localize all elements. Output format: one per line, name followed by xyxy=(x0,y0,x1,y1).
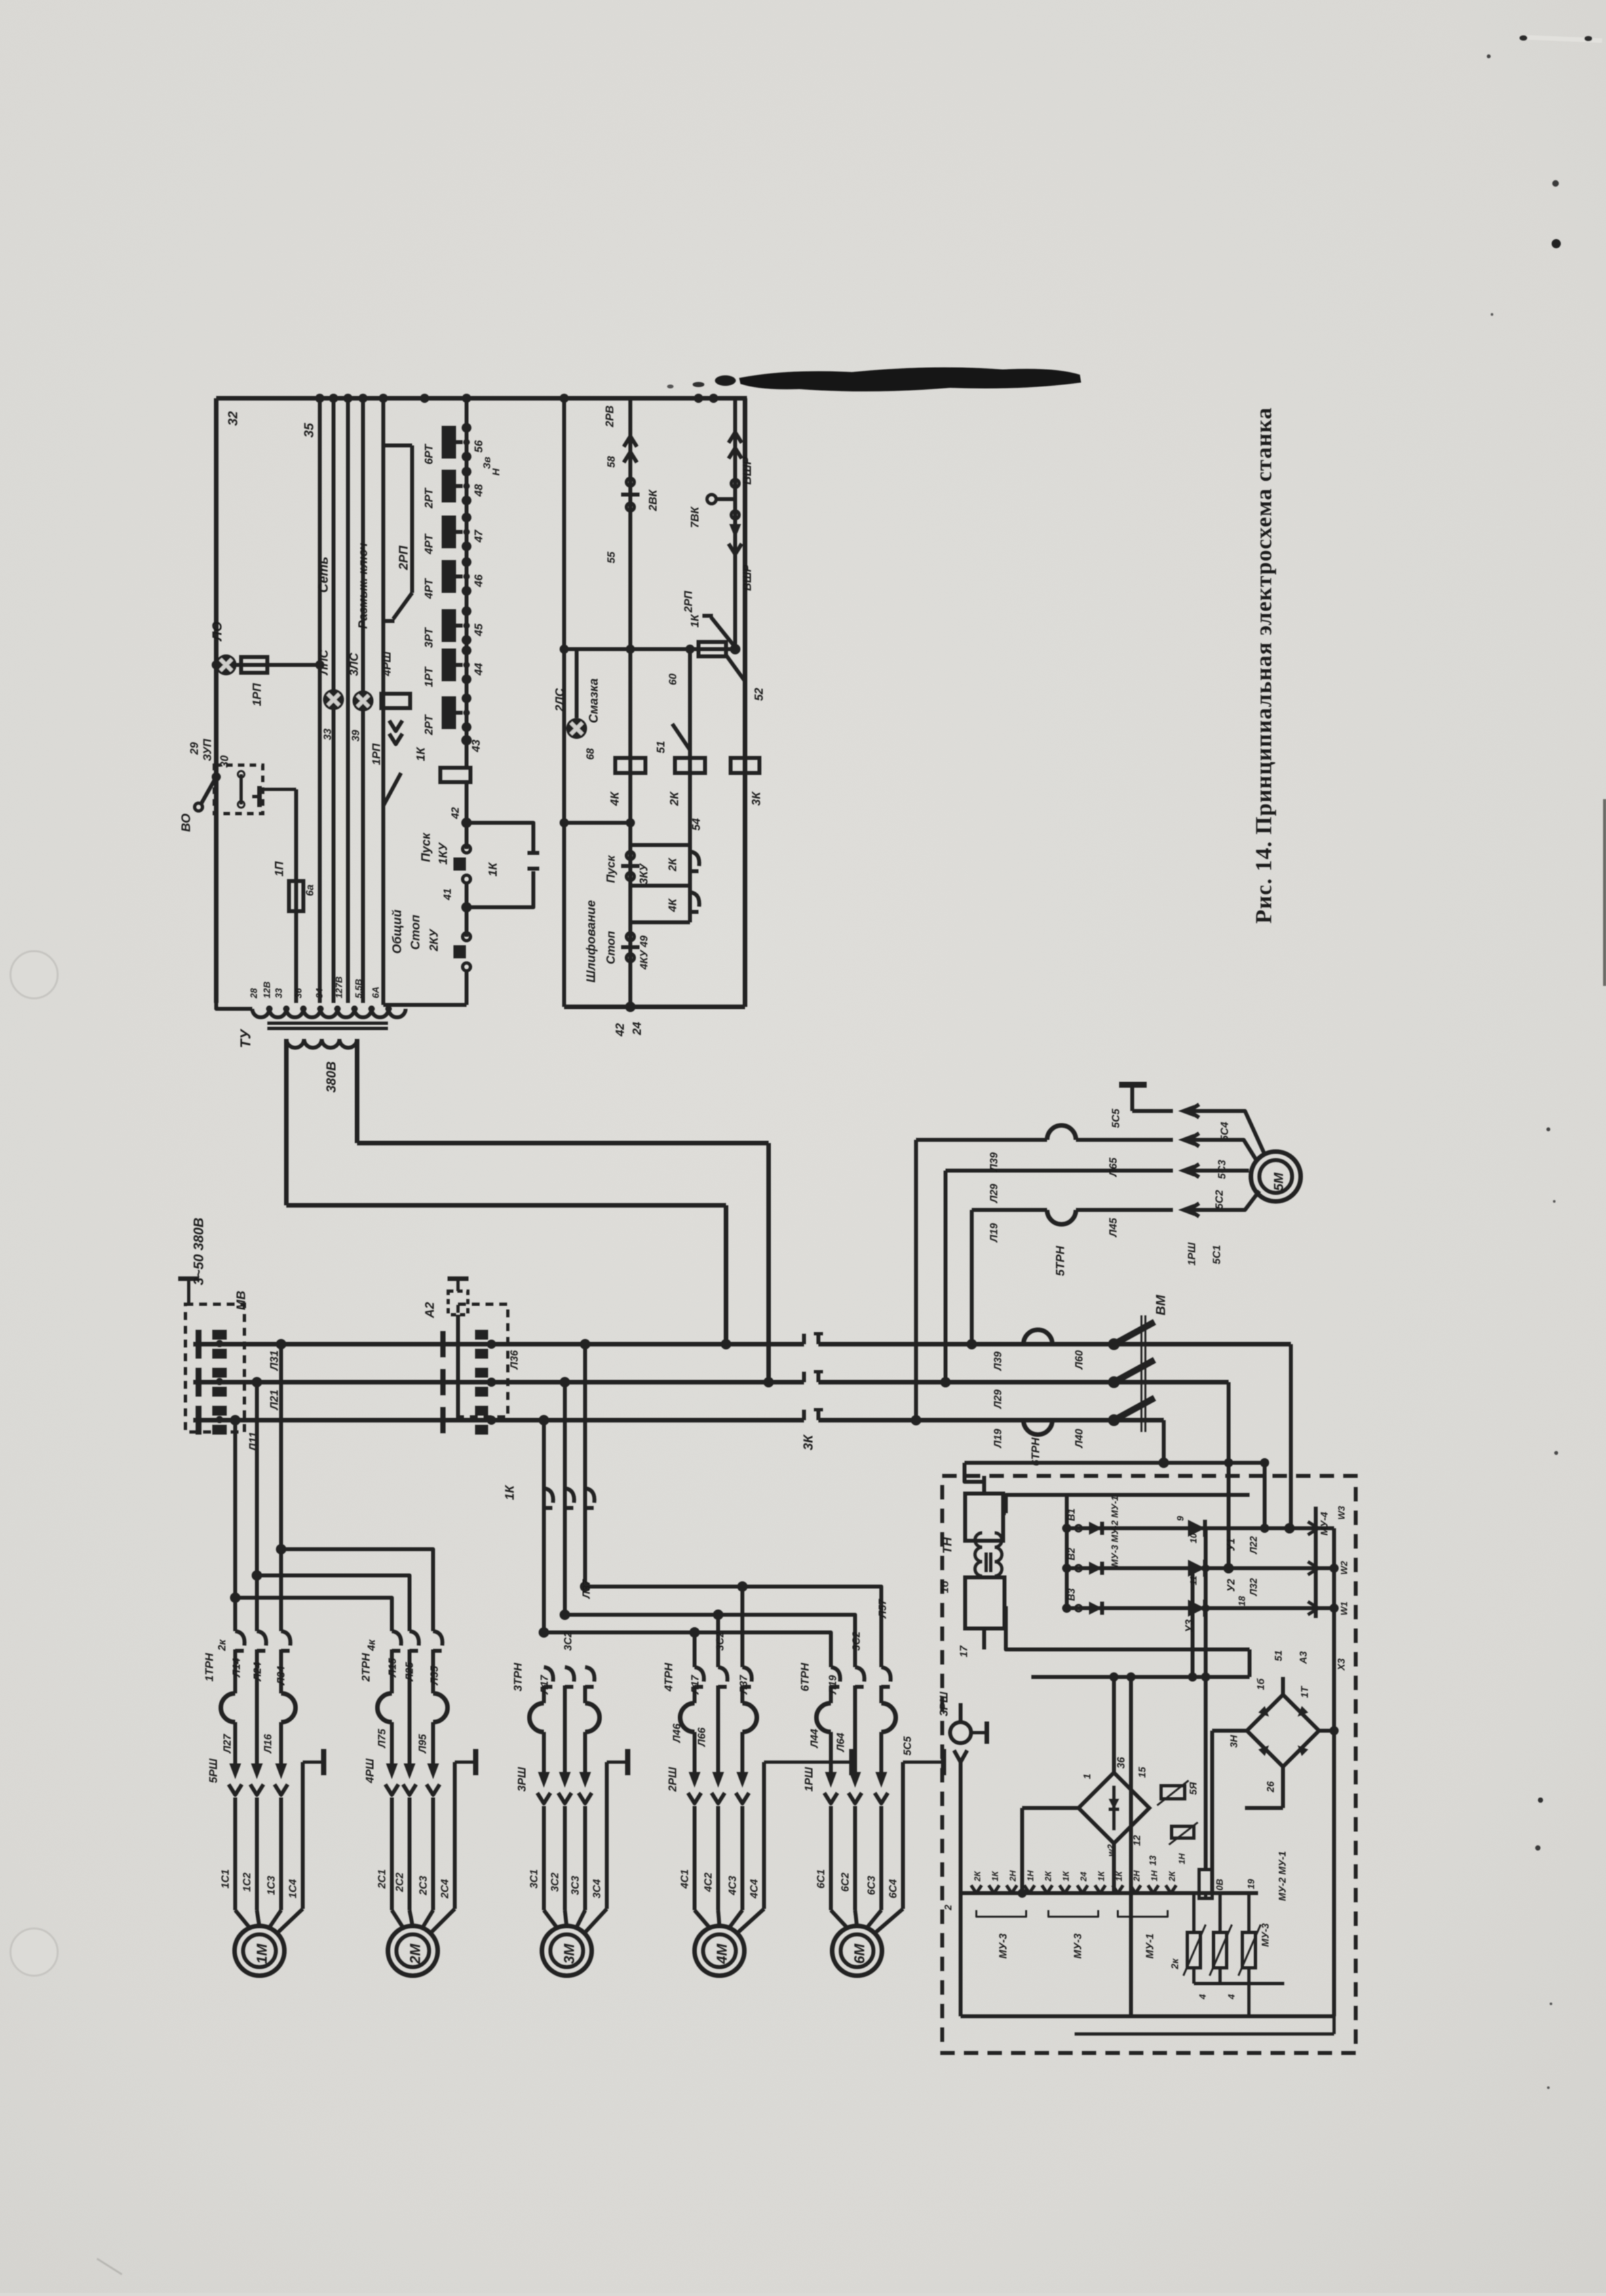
overload bus bump top xyxy=(1023,1330,1052,1344)
svg-text:0В: 0В xyxy=(1214,1879,1225,1891)
svg-text:W3: W3 xyxy=(1336,1506,1347,1520)
wire resistor row top xyxy=(1179,1891,1258,1895)
svg-text:4РТ: 4РТ xyxy=(423,578,435,599)
connector РШ arrows 6М xyxy=(825,1772,837,1788)
wire V2 xyxy=(688,649,692,922)
svg-text:3ЛС: 3ЛС xyxy=(347,652,360,676)
svg-text:4С3: 4С3 xyxy=(727,1876,738,1896)
junction bus2 3М xyxy=(560,1377,570,1387)
svg-text:Л29: Л29 xyxy=(989,1184,1000,1203)
connector ВШР up arrows xyxy=(729,448,742,459)
svg-text:ТУ: ТУ xyxy=(237,1028,254,1048)
svg-text:7ВК: 7ВК xyxy=(689,506,701,528)
wire bridge2 left xyxy=(1212,1729,1247,1733)
svg-text:У1: У1 xyxy=(1226,1538,1237,1551)
svg-text:2К: 2К xyxy=(1167,1871,1177,1882)
motor 4М xyxy=(695,1926,744,1976)
svg-text:3С1: 3С1 xyxy=(529,1870,540,1889)
svg-text:Л17: Л17 xyxy=(690,1674,701,1695)
svg-text:Л60: Л60 xyxy=(1074,1350,1085,1370)
contactor А2 box xyxy=(448,1291,468,1315)
overload 5ТРН a xyxy=(1047,1125,1076,1140)
svg-text:Зв: Зв xyxy=(482,457,493,469)
svg-text:6А: 6А xyxy=(370,987,381,998)
svg-text:ВО: ВО xyxy=(180,814,193,832)
overload bus bump bottom xyxy=(1023,1420,1052,1435)
svg-text:2КУ: 2КУ xyxy=(427,928,440,952)
wire 5М fan xyxy=(1194,1111,1265,1154)
wire 2М below bumps xyxy=(390,1722,394,1763)
svg-text:3К: 3К xyxy=(750,791,763,806)
svg-text:2М: 2М xyxy=(407,1944,423,1965)
svg-text:36: 36 xyxy=(293,988,303,998)
svg-text:1К: 1К xyxy=(414,746,427,761)
svg-text:2к: 2к xyxy=(1170,1958,1181,1970)
svg-text:Л35: Л35 xyxy=(429,1665,440,1685)
contactor А2 dashed xyxy=(458,1304,508,1417)
contact К 6М b xyxy=(855,1667,864,1682)
svg-text:1М: 1М xyxy=(254,1944,270,1964)
scan speck tr3 xyxy=(1487,54,1491,58)
svg-text:Л34: Л34 xyxy=(276,1666,287,1685)
wire route to 2М c xyxy=(235,1598,392,1631)
junction bus3 1М xyxy=(230,1415,240,1425)
connector ЗРШ xyxy=(950,1722,971,1743)
svg-text:4ТРН: 4ТРН xyxy=(662,1663,675,1692)
wire 380В run xyxy=(286,1203,726,1208)
svg-text:ВМ: ВМ xyxy=(1154,1294,1168,1315)
svg-text:1К: 1К xyxy=(1114,1871,1124,1881)
ЗУП inner contact xyxy=(240,774,243,804)
wire В column xyxy=(1065,1495,1069,1608)
contact К 4М a xyxy=(695,1667,704,1682)
svg-text:3ТРН: 3ТРН xyxy=(512,1663,524,1691)
transformer ТН secondary box xyxy=(965,1577,1004,1628)
motor 5М xyxy=(1251,1152,1301,1201)
button 4КУ xyxy=(626,933,634,941)
wire control left rail xyxy=(214,398,219,1003)
wire bottom return xyxy=(961,2014,1334,2018)
contact К 2М a xyxy=(392,1631,401,1646)
svg-text:4К: 4К xyxy=(608,791,621,806)
wire 5М row top xyxy=(916,1138,1047,1142)
svg-text:2РТ: 2РТ xyxy=(423,714,435,736)
ТН coil right xyxy=(995,1533,1002,1576)
wire ТН sec out xyxy=(982,1628,986,1649)
svg-text:2РВ: 2РВ xyxy=(603,405,616,428)
wire row У3 xyxy=(1067,1606,1334,1610)
svg-text:6а: 6а xyxy=(305,884,316,896)
button 1КУ xyxy=(463,845,470,853)
svg-text:1К: 1К xyxy=(503,1484,517,1500)
svg-text:28: 28 xyxy=(248,988,259,999)
wire ЗУП to fuse rail xyxy=(263,788,296,791)
svg-text:33: 33 xyxy=(322,728,334,740)
scan speck r1 xyxy=(1546,1127,1550,1131)
svg-text:W2: W2 xyxy=(1339,1561,1349,1575)
connector РШ arrows 1М xyxy=(229,1763,241,1779)
coil 3К xyxy=(731,758,759,773)
contact 1РТ bars xyxy=(442,649,456,681)
svg-text:2ЛС: 2ЛС xyxy=(553,688,566,712)
junction 3М route b xyxy=(560,1609,570,1620)
svg-text:1Н: 1Н xyxy=(1149,1870,1159,1881)
svg-text:МУ-4: МУ-4 xyxy=(1319,1511,1330,1535)
svg-text:Шлифование: Шлифование xyxy=(584,900,598,983)
resistor R1 xyxy=(1193,1893,1196,1932)
coil 1К xyxy=(440,768,470,782)
junction 3М route c xyxy=(539,1627,549,1638)
connector shl top xyxy=(564,821,630,825)
wire Y2560 run xyxy=(1031,1675,1250,1679)
svg-text:МУ-3 МУ-2 МУ-1: МУ-3 МУ-2 МУ-1 xyxy=(1109,1496,1120,1567)
svg-text:Л64: Л64 xyxy=(835,1733,847,1752)
motor 3М xyxy=(542,1926,592,1976)
junction right bus rows xyxy=(1329,1564,1339,1573)
wire 3М below bumps xyxy=(542,1732,546,1772)
svg-text:Л32: Л32 xyxy=(1248,1577,1259,1596)
svg-text:ВШР: ВШР xyxy=(740,456,754,485)
wire ТУ sec right xyxy=(355,1039,360,1143)
relay ЗУП dashed box xyxy=(214,765,263,814)
wire 4М col right xyxy=(740,1587,744,1667)
junction У1 bus1 xyxy=(1284,1523,1295,1534)
junction on top rail xyxy=(315,394,324,403)
overload 4ТРН heater a xyxy=(680,1703,695,1732)
svg-text:4С4: 4С4 xyxy=(749,1879,760,1899)
svg-text:55: 55 xyxy=(606,551,617,563)
svg-text:Л19: Л19 xyxy=(993,1429,1004,1448)
contact 1К loop xyxy=(467,823,533,852)
wire 3М col right xyxy=(583,1344,587,1587)
svg-text:Л37: Л37 xyxy=(581,1579,592,1599)
connector 2РВ arrows xyxy=(624,452,637,462)
wire 1М to motor xyxy=(233,1797,237,1910)
wire bus phase 3 xyxy=(193,1418,804,1423)
svg-text:МУ-3: МУ-3 xyxy=(998,1934,1009,1959)
ТУ secondary winding xyxy=(286,1039,357,1048)
svg-text:1РП: 1РП xyxy=(370,743,383,765)
transformer ТН primary box xyxy=(965,1494,1003,1541)
svg-text:1Н: 1Н xyxy=(1177,1853,1187,1864)
svg-text:17: 17 xyxy=(959,1645,970,1657)
svg-text:В1: В1 xyxy=(1066,1509,1077,1521)
wire route to 2М a xyxy=(281,1549,433,1631)
wire ground 1М xyxy=(301,1762,305,1909)
wire route to 6М b xyxy=(565,1615,855,1667)
scan speck tr1 xyxy=(1520,35,1527,41)
switch ВМ blades xyxy=(1108,1338,1120,1350)
svg-text:5ТРН: 5ТРН xyxy=(1054,1245,1067,1276)
junction on top rail xyxy=(329,394,338,403)
wire А2 stem xyxy=(456,1315,460,1420)
svg-text:2ТРН: 2ТРН xyxy=(360,1653,372,1682)
svg-text:2К: 2К xyxy=(1043,1871,1053,1882)
svg-text:2К: 2К xyxy=(972,1871,982,1882)
svg-text:Л24: Л24 xyxy=(252,1662,263,1682)
scan speck r7 xyxy=(1547,2086,1550,2089)
wire ЗРШ up xyxy=(959,1703,963,1722)
wire ТН drop xyxy=(965,1463,984,1482)
svg-text:МУ-2 МУ-1: МУ-2 МУ-1 xyxy=(1277,1851,1288,1901)
svg-text:1РШ: 1РШ xyxy=(803,1767,815,1792)
svg-text:9: 9 xyxy=(1175,1516,1185,1521)
coil 4К xyxy=(615,758,645,773)
contact К 2М c xyxy=(433,1631,442,1646)
wire control right rail xyxy=(743,398,748,1007)
svg-text:13: 13 xyxy=(1147,1855,1158,1866)
svg-text:Л39: Л39 xyxy=(989,1152,1000,1172)
svg-text:Стоп: Стоп xyxy=(409,914,423,950)
svg-text:24: 24 xyxy=(1079,1872,1088,1882)
svg-text:Х3: Х3 xyxy=(1336,1658,1347,1671)
svg-text:51: 51 xyxy=(655,741,667,753)
wire bridge1 left xyxy=(1022,1806,1079,1810)
svg-text:1П: 1П xyxy=(273,861,286,876)
contact 52 blade xyxy=(726,655,745,681)
svg-text:32: 32 xyxy=(226,411,240,426)
svg-text:3РТ: 3РТ xyxy=(423,627,435,648)
wire loop rung b xyxy=(630,884,690,888)
wire 4М cols mid xyxy=(693,1685,697,1703)
svg-text:5М: 5М xyxy=(1272,1172,1286,1191)
coil АРШ xyxy=(381,694,410,708)
brace g3 xyxy=(1118,1910,1168,1917)
wire 5М row bot xyxy=(972,1208,1047,1212)
wire loop rung c xyxy=(630,920,690,924)
scan speck r4 xyxy=(1538,1797,1543,1803)
overload 3ТРН heater a xyxy=(529,1703,544,1732)
svg-text:Л39: Л39 xyxy=(993,1351,1004,1371)
svg-text:МУ-3: МУ-3 xyxy=(1073,1934,1084,1959)
svg-text:Л15: Л15 xyxy=(387,1657,398,1678)
svg-text:44: 44 xyxy=(472,663,485,676)
svg-text:4КУ 49: 4КУ 49 xyxy=(639,935,650,970)
diode group В3 xyxy=(1075,1605,1082,1611)
junction 4М b xyxy=(713,1609,723,1620)
svg-text:Н: Н xyxy=(491,468,502,476)
punch hole lower xyxy=(10,1929,58,1976)
svg-text:42: 42 xyxy=(450,807,461,819)
scan edge sliver xyxy=(1603,799,1606,986)
junction on top rail xyxy=(420,394,429,403)
ТУ core xyxy=(267,1022,388,1025)
wire 6М to motor xyxy=(829,1806,833,1910)
junction on top rail xyxy=(343,394,353,403)
connector РШ arrows 2М xyxy=(386,1763,398,1779)
svg-text:45: 45 xyxy=(472,624,485,637)
brace g2 xyxy=(1048,1910,1098,1917)
wire 1К to buttons xyxy=(465,782,468,849)
svg-text:4РТ: 4РТ xyxy=(423,533,435,555)
svg-text:1К: 1К xyxy=(689,614,701,628)
svg-text:33: 33 xyxy=(273,988,284,998)
svg-text:1К: 1К xyxy=(486,861,499,876)
contact К 6М a xyxy=(831,1667,840,1682)
svg-text:1С3: 1С3 xyxy=(266,1876,277,1895)
svg-text:1РШ: 1РШ xyxy=(1187,1242,1198,1266)
motor 2М xyxy=(388,1926,438,1976)
wire rail Смазка xyxy=(562,398,566,1007)
svg-text:ЛО: ЛО xyxy=(210,621,225,642)
ЗРШ chevron xyxy=(954,1750,967,1762)
motor 6М xyxy=(832,1926,882,1976)
wire route to 6М c xyxy=(544,1632,831,1667)
svg-text:Л46: Л46 xyxy=(672,1723,683,1743)
contact 4РТ bars xyxy=(442,560,456,593)
wire 1М below bumps xyxy=(233,1722,237,1763)
svg-text:380В: 380В xyxy=(324,1061,339,1093)
wire rail to coil xyxy=(216,1003,252,1009)
svg-text:1: 1 xyxy=(1082,1774,1093,1779)
wire bottom return 2 xyxy=(1075,2033,1334,2036)
svg-text:3С2: 3С2 xyxy=(851,1632,862,1651)
svg-text:24: 24 xyxy=(630,1022,643,1036)
svg-text:Л29: Л29 xyxy=(993,1389,1004,1409)
svg-text:1РТ: 1РТ xyxy=(423,666,435,687)
svg-text:Л36: Л36 xyxy=(509,1350,520,1370)
wire ТН feed xyxy=(965,1461,1265,1465)
svg-text:2С4: 2С4 xyxy=(440,1879,451,1899)
contact К 2М b xyxy=(410,1631,419,1646)
connector РШ arrows 4М xyxy=(689,1772,700,1788)
svg-text:68: 68 xyxy=(585,748,596,760)
wire 2М to motor xyxy=(390,1797,394,1910)
junction on top rail xyxy=(709,394,718,403)
scan speck r2 xyxy=(1553,1200,1556,1203)
connector АРШ arrows xyxy=(389,721,402,731)
svg-text:3РШ: 3РШ xyxy=(938,1691,950,1716)
svg-text:5С1: 5С1 xyxy=(1212,1245,1223,1264)
svg-text:3С4: 3С4 xyxy=(592,1879,603,1898)
svg-text:4С2: 4С2 xyxy=(703,1873,714,1892)
svg-text:Общий: Общий xyxy=(391,909,404,954)
svg-text:1Т: 1Т xyxy=(1299,1685,1310,1698)
svg-text:34: 34 xyxy=(314,988,324,998)
wire rail net Сеть xyxy=(318,398,322,1003)
svg-text:19: 19 xyxy=(1246,1879,1256,1889)
wire between buttons xyxy=(465,883,468,937)
wire right inner bus xyxy=(1332,1528,1336,2016)
coil 1РП xyxy=(241,657,267,673)
svg-text:36: 36 xyxy=(1116,1757,1127,1769)
svg-text:3К: 3К xyxy=(801,1434,816,1450)
overload 1ТРН heater a xyxy=(221,1693,235,1722)
rung ЛО 1РП wire xyxy=(216,663,320,667)
wire 1М col right xyxy=(279,1344,283,1631)
МУ big loop xyxy=(1006,1495,1250,1513)
svg-text:В2: В2 xyxy=(1066,1547,1077,1560)
wire 3М cols mid xyxy=(542,1685,546,1703)
svg-text:Л37: Л37 xyxy=(738,1674,750,1695)
connector РШ arrows 3М xyxy=(538,1772,550,1788)
svg-text:ЗУП: ЗУП xyxy=(201,738,214,761)
svg-text:1б: 1б xyxy=(940,1580,951,1593)
svg-text:4: 4 xyxy=(1197,1994,1208,2000)
svg-text:Л44: Л44 xyxy=(809,1729,820,1748)
svg-text:Л95: Л95 xyxy=(417,1733,429,1754)
junction bus1 5М xyxy=(966,1339,977,1349)
svg-text:56: 56 xyxy=(472,440,485,453)
wire 6М below bumps xyxy=(829,1732,833,1772)
svg-text:Л45: Л45 xyxy=(1108,1217,1119,1237)
diode group В2 xyxy=(1075,1565,1082,1571)
svg-text:Л21: Л21 xyxy=(268,1389,280,1411)
svg-text:11: 11 xyxy=(1188,1575,1198,1585)
svg-text:2К: 2К xyxy=(668,791,681,806)
resistor R3 xyxy=(1248,1893,1251,1932)
svg-text:МУ-3: МУ-3 xyxy=(1260,1923,1271,1947)
МУ4 chevrons xyxy=(1308,1522,1318,1535)
wire 6М cols mid xyxy=(829,1685,833,1703)
wire 2РП vertical xyxy=(410,445,414,593)
svg-text:54: 54 xyxy=(690,818,702,831)
svg-text:А3: А3 xyxy=(1298,1651,1309,1665)
junction route1 xyxy=(276,1544,286,1554)
svg-text:5РШ: 5РШ xyxy=(207,1758,220,1783)
КН contact chevrons xyxy=(971,1885,982,1893)
svg-text:5Я: 5Я xyxy=(1188,1782,1199,1795)
junction route2 xyxy=(252,1570,262,1581)
overload 1ТРН heater c xyxy=(281,1693,296,1722)
scan crease top right xyxy=(1527,37,1602,41)
svg-text:18: 18 xyxy=(1236,1596,1247,1606)
contact 2ВК circles xyxy=(626,478,634,486)
wire bridge2 bottom xyxy=(1281,1767,1285,1808)
МУ dashed enclosure xyxy=(942,1476,1356,2053)
contact К 4М c xyxy=(742,1667,752,1682)
wire 1907 drop xyxy=(1248,1649,1252,1677)
svg-text:Сеть: Сеть xyxy=(316,557,331,593)
svg-text:МВ: МВ xyxy=(235,1290,248,1310)
node 43 xyxy=(461,735,472,745)
contact 51 blade xyxy=(672,724,690,750)
wire V1 buttons xyxy=(628,649,632,1007)
svg-text:Л22: Л22 xyxy=(1248,1535,1259,1554)
resistor 1Р xyxy=(1172,1826,1194,1838)
scan speck r3 xyxy=(1554,1451,1558,1455)
svg-text:2ВК: 2ВК xyxy=(647,489,659,512)
wire 5М tap c xyxy=(970,1210,974,1344)
junction bus2 5М xyxy=(940,1377,951,1387)
svg-text:МУ-1: МУ-1 xyxy=(1145,1934,1156,1959)
wire after ВМ 3 xyxy=(1162,1420,1166,1463)
wire Л22 drop xyxy=(1204,1528,1208,1870)
svg-text:Л16: Л16 xyxy=(263,1734,274,1754)
svg-text:10: 10 xyxy=(1188,1533,1198,1543)
junction 4М a xyxy=(737,1581,748,1592)
wire 3М to motor xyxy=(542,1806,546,1910)
А2 T symbol xyxy=(448,1277,468,1281)
svg-text:4С1: 4С1 xyxy=(679,1870,691,1889)
junction route3 xyxy=(230,1592,240,1603)
svg-text:26: 26 xyxy=(1265,1781,1276,1793)
contact 3РТ bars xyxy=(442,609,456,642)
contact 4РТ bars xyxy=(442,516,456,548)
svg-text:3С3: 3С3 xyxy=(570,1876,581,1895)
connector ВШР down arrows xyxy=(729,524,741,538)
wire 4М to motor xyxy=(693,1806,697,1910)
wire rail ЛПС xyxy=(332,398,335,1003)
svg-text:У2: У2 xyxy=(1226,1579,1237,1592)
svg-text:43: 43 xyxy=(470,740,482,753)
junction on top rail xyxy=(694,394,703,403)
transformer ТУ top winding xyxy=(252,1009,406,1017)
svg-text:2Н: 2Н xyxy=(1132,1870,1141,1882)
junction У2 bus2 xyxy=(1223,1563,1234,1573)
svg-text:Л27: Л27 xyxy=(222,1733,233,1754)
svg-text:29: 29 xyxy=(188,742,201,755)
